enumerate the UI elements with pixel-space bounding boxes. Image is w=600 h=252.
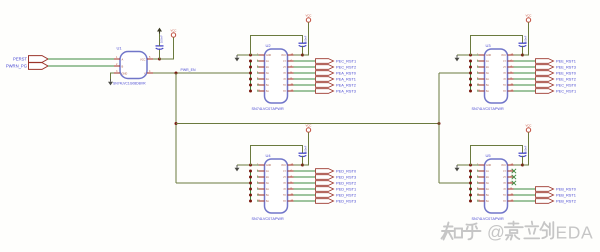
U2 right pin 4 (2Y) [288, 66, 294, 68]
svg-text:4: 4 [149, 70, 151, 73]
wire VCC circle to U1 VCC node [160, 37, 174, 59]
U4 right pin 4 (2Y) [288, 176, 294, 178]
U1 pin 5 (VCC) stub [147, 58, 153, 60]
net label PED_RST3 [336, 198, 356, 203]
svg-text:1Y: 1Y [283, 61, 286, 63]
C1 value label 100nF (vertical) [160, 35, 164, 43]
svg-text:EDA: EDA [556, 222, 594, 242]
net label PEC_RST1 [336, 58, 356, 63]
net label PEA_RST1 [336, 76, 356, 81]
net label PEE_RST0 [556, 70, 577, 75]
U1 pin 3 (GND) stub [114, 72, 120, 74]
svg-text:PEE_RST3: PEE_RST3 [556, 64, 576, 69]
junction U3 VCC node [514, 54, 523, 56]
wire U3 output row 6 to port [514, 90, 536, 92]
svg-text:U5: U5 [486, 153, 492, 158]
U3 input bus wire [470, 61, 472, 91]
svg-text:@: @ [487, 222, 505, 242]
svg-text:6Y: 6Y [503, 201, 506, 203]
port PEC_RST2 [316, 65, 334, 70]
port PEE_RST1 [536, 59, 554, 64]
net label PED_RST0 [336, 168, 357, 173]
U3 right pin 6 (3Y) [508, 72, 514, 74]
wire U3 output row 2 to port [514, 66, 536, 68]
U3 left pin 1 (1A) [477, 60, 479, 62]
port PEB_RST1 [536, 193, 554, 198]
svg-text:GND: GND [266, 55, 271, 57]
port PEA_RST1 [316, 77, 334, 82]
vertical net wire x=176 [175, 73, 177, 183]
U1 part number label [113, 82, 146, 86]
net label PEA_RST3 [336, 88, 356, 93]
svg-text:6Y: 6Y [283, 201, 286, 203]
no-connect flag U5 output row 2 [512, 175, 516, 179]
junction U3 input pin row 1 [469, 60, 472, 63]
svg-text:5Y: 5Y [503, 195, 506, 197]
svg-text:2Y: 2Y [503, 67, 506, 69]
wire U4 output row 6 to port [294, 200, 316, 202]
svg-text:PWR_EN: PWR_EN [181, 68, 196, 72]
junction U3 input pin row 4 [469, 78, 472, 81]
wire U2 output row 5 to port [294, 84, 316, 86]
feed wire to U5 inputs [439, 182, 471, 184]
junction U3 input pin row 2 [469, 66, 472, 69]
U3 right pin 8 (4Y) [508, 78, 514, 80]
U3 reference designator [486, 43, 492, 48]
svg-text:3Y: 3Y [503, 73, 506, 75]
U5 right pin 10 (5Y) [508, 194, 514, 196]
U3 right pin 10 (5Y) [508, 84, 514, 86]
svg-text:PED_RST2: PED_RST2 [336, 192, 356, 197]
port PEE_RST0 [536, 71, 554, 76]
IC U4 block (bottom middle) [235, 124, 357, 221]
junction U4 input pin row 3 [249, 182, 252, 185]
wire U3 output row 3 to port [514, 72, 536, 74]
svg-text:2Y: 2Y [283, 177, 286, 179]
net label PWR_EN [181, 68, 196, 72]
wire PWRN_PG to U1 pin B [48, 65, 114, 67]
U3 left pin 9 (4A) [477, 78, 479, 80]
U5 right pin 12 (6Y) [508, 200, 514, 202]
svg-text:1Y: 1Y [503, 61, 506, 63]
port PEB_RST0 [536, 187, 554, 192]
junction U4 input pin row 5 [249, 194, 252, 197]
wire U4 GND pin to ground [237, 164, 257, 166]
capacitor C1 [159, 49, 161, 60]
junction U1 VCC node [158, 58, 161, 61]
wire U2 GND loop to capacitor [251, 36, 303, 56]
svg-text:PWRN_PG: PWRN_PG [6, 63, 27, 68]
svg-text:U3: U3 [486, 43, 492, 48]
net label PED_RST3 [336, 174, 356, 179]
svg-text:100nF: 100nF [524, 35, 528, 43]
svg-text:4Y: 4Y [283, 79, 286, 81]
U2 right pin 2 (1Y) [288, 60, 294, 62]
svg-text:1Y: 1Y [283, 171, 286, 173]
wire VCC circle to U4 VCC node [303, 132, 309, 165]
port PED_RST0 [316, 169, 334, 174]
feed wire to U3 inputs [439, 72, 471, 74]
wire U3 output row 4 to port [514, 78, 536, 80]
port PED_RST2 [316, 181, 334, 186]
U4 reference designator [266, 153, 272, 158]
svg-text:2: 2 [116, 63, 118, 66]
wire U1 VCC pin to node [153, 58, 160, 60]
U5 part number label [472, 217, 504, 221]
U3 right pin 12 (6Y) [508, 90, 514, 92]
power port VCC circle (U2) [306, 18, 310, 22]
power port VCC circle (U4) [306, 128, 310, 132]
svg-text:PEC_RST1: PEC_RST1 [336, 58, 356, 63]
U2 left pin 5 (3A) [257, 72, 259, 74]
svg-text:PERST: PERST [13, 56, 27, 61]
junction U4 GND node [249, 164, 252, 167]
svg-text:VCC: VCC [306, 124, 312, 128]
wire U3 GND loop to capacitor [471, 36, 523, 56]
svg-text:U1: U1 [117, 45, 123, 50]
svg-text:PEA_RST1: PEA_RST1 [336, 76, 356, 81]
net label PED_RST2 [336, 180, 356, 185]
IC U2 block (top middle) [235, 14, 357, 111]
svg-text:VCC: VCC [526, 124, 532, 128]
U3 left pin 11 (5A) [477, 84, 479, 86]
net label PEE_RST3 [556, 64, 576, 69]
junction U5 input pin row 5 [469, 194, 472, 197]
svg-text:PEA_RST2: PEA_RST2 [336, 82, 356, 87]
U2 left pin 3 (2A) [257, 66, 259, 68]
port PEC_RST1 [536, 89, 554, 94]
U1 pin 4 (Y) stub [147, 72, 153, 74]
U4 left pin 1 (1A) [257, 170, 259, 172]
svg-text:4Y: 4Y [503, 79, 506, 81]
U3 right pin 4 (2Y) [508, 66, 514, 68]
wire U2 output row 6 to port [294, 90, 316, 92]
svg-text:PED_RST2: PED_RST2 [336, 180, 356, 185]
op IC U1 body (SN74LVC1G08) [120, 52, 147, 79]
capacitor C4 [299, 152, 307, 154]
svg-text:3: 3 [116, 70, 118, 73]
port PEB_RST2 [536, 199, 554, 204]
port PERST (input port, left) [29, 56, 49, 63]
net label PED_RST2 [336, 192, 356, 197]
svg-text:2Y: 2Y [503, 177, 506, 179]
port PED_RST2 [316, 193, 334, 198]
port PED_RST3 [316, 175, 334, 180]
svg-text:GND: GND [486, 55, 491, 57]
U2 right pin 10 (5Y) [288, 84, 294, 86]
svg-text:100nF: 100nF [304, 145, 308, 153]
port PEA_RST2 [316, 83, 334, 88]
wire U3 GND pin to ground [457, 54, 477, 56]
svg-text:SN74LVC07APWR: SN74LVC07APWR [252, 217, 284, 221]
svg-text:U2: U2 [266, 43, 272, 48]
U4 left pin 3 (2A) [257, 176, 259, 178]
port PEE_RST3 [536, 65, 554, 70]
power flag arrow (VCC) above C1 [159, 32, 161, 34]
wire U5 output row 6 to port [514, 200, 536, 202]
svg-text:VCC: VCC [306, 14, 312, 18]
U5 right pin 6 (3Y) [508, 182, 514, 184]
svg-text:5: 5 [149, 56, 151, 59]
junction U4 input pin row 1 [249, 170, 252, 173]
junction U2 input pin row 4 [249, 78, 252, 81]
U4 right pin 14 (VCC) [288, 164, 294, 166]
feed wire to U4 inputs [176, 182, 251, 184]
ground symbol (U2) [236, 55, 238, 58]
svg-text:100nF: 100nF [304, 35, 308, 43]
svg-text:SN74LVC07APWR: SN74LVC07APWR [472, 107, 504, 111]
svg-text:5Y: 5Y [283, 85, 286, 87]
junction U2 input pin row 2 [249, 66, 252, 69]
svg-text:3Y: 3Y [283, 73, 286, 75]
wire U5 GND pin to ground [457, 164, 477, 166]
U5 left pin 1 (1A) [477, 170, 479, 172]
C5 value label 100nF (vertical) [524, 145, 528, 153]
svg-text:PEE_RST1: PEE_RST1 [556, 58, 576, 63]
svg-text:PED_RST3: PED_RST3 [336, 174, 356, 179]
ground symbol (U3) [456, 55, 458, 58]
junction U3 input pin row 3 [469, 72, 472, 75]
svg-text:SN74LVC07APWR: SN74LVC07APWR [472, 217, 504, 221]
net label PEB_RST1 [556, 192, 576, 197]
U4 left pin 5 (3A) [257, 182, 259, 184]
C4 value label 100nF (vertical) [304, 145, 308, 153]
U4 left pin 9 (4A) [257, 188, 259, 190]
net label PEE_RST2 [556, 76, 576, 81]
power port VCC circle (U1) [171, 33, 175, 37]
svg-text:VCC: VCC [281, 165, 286, 167]
svg-text:SN74LVC1G08DBVR: SN74LVC1G08DBVR [113, 82, 146, 86]
junction U5 VCC node [514, 164, 523, 166]
svg-text:4Y: 4Y [503, 189, 506, 191]
U4 left pin 11 (5A) [257, 194, 259, 196]
U5 reference designator [486, 153, 492, 158]
svg-text:PED_RST1: PED_RST1 [336, 186, 356, 191]
wire U4 output row 5 to port [294, 194, 316, 196]
U2 right pin 12 (6Y) [288, 90, 294, 92]
capacitor C3 [519, 42, 527, 44]
IC U3 block (top right) [455, 14, 577, 111]
U2 left pin 7 (GND) [257, 54, 259, 56]
svg-text:6Y: 6Y [503, 91, 506, 93]
U2 right pin 14 (VCC) [288, 54, 294, 56]
svg-text:VCC: VCC [281, 55, 286, 57]
svg-text:6Y: 6Y [283, 91, 286, 93]
IC U3 body (SN74LVC07APWR) [485, 49, 508, 103]
junction U5 input pin row 4 [469, 188, 472, 191]
U4 input bus wire [250, 171, 252, 201]
U3 part number label [472, 107, 504, 111]
U5 input bus wire [470, 171, 472, 201]
U1 reference designator [117, 45, 123, 50]
U3 left pin 13 (6A) [477, 90, 479, 92]
U5 right pin 8 (4Y) [508, 188, 514, 190]
svg-text:1Y: 1Y [503, 171, 506, 173]
svg-text:SN74LVC07APWR: SN74LVC07APWR [252, 107, 284, 111]
svg-text:PED_RST3: PED_RST3 [336, 198, 356, 203]
wire U4 GND loop to capacitor [251, 146, 303, 166]
junction U2 VCC node [294, 54, 303, 56]
svg-text:PEB_RST2: PEB_RST2 [556, 198, 576, 203]
junction U3 input pin row 6 [469, 90, 472, 93]
svg-text:PEB_RST0: PEB_RST0 [556, 186, 577, 191]
junction U2 input pin row 1 [249, 60, 252, 63]
svg-text:3Y: 3Y [283, 183, 286, 185]
junction U5 input pin row 2 [469, 176, 472, 179]
wire VCC circle to U2 VCC node [303, 22, 309, 55]
junction U5 input pin row 3 [469, 182, 472, 185]
IC U4 body (SN74LVC07APWR) [265, 159, 288, 213]
svg-text:2Y: 2Y [283, 67, 286, 69]
U2 left pin 1 (1A) [257, 60, 259, 62]
wire U4 output row 4 to port [294, 188, 316, 190]
svg-text:PEA_RST3: PEA_RST3 [336, 88, 356, 93]
junction U5 input pin row 1 [469, 170, 472, 173]
junction U3 GND node [469, 54, 472, 57]
wire U2 output row 3 to port [294, 72, 316, 74]
svg-text:100nF: 100nF [524, 145, 528, 153]
net label PEC_RST0 [556, 82, 577, 87]
U1 pin 1 (A) stub [114, 58, 120, 60]
wire U2 output row 2 to port [294, 66, 316, 68]
wire VCC circle to U5 VCC node [523, 132, 529, 165]
svg-text:4Y: 4Y [283, 189, 286, 191]
U5 left pin 3 (2A) [477, 176, 479, 178]
wire U5 output row 5 to port [514, 194, 536, 196]
U3 right pin 2 (1Y) [508, 60, 514, 62]
power port VCC circle (U5) [526, 128, 530, 132]
U4 right pin 8 (4Y) [288, 188, 294, 190]
U3 left pin 7 (GND) [477, 54, 479, 56]
port PEE_RST2 [536, 77, 554, 82]
junction U4 VCC node [294, 164, 303, 166]
port PWRN_PG (input port, left) [29, 63, 49, 70]
capacitor C5 [519, 152, 527, 154]
U5 left pin 7 (GND) [477, 164, 479, 166]
net label PEC_RST2 [336, 64, 356, 69]
U4 right pin 12 (6Y) [288, 200, 294, 202]
junction U5 input pin row 6 [469, 200, 472, 203]
U3 left pin 5 (3A) [477, 72, 479, 74]
C2 value label 100nF (vertical) [304, 35, 308, 43]
wire U1 GND pin to ground [111, 73, 115, 79]
capacitor C2 [299, 42, 307, 44]
net label PEE_RST1 [556, 58, 576, 63]
watermark JLC CJK glyphs [505, 222, 554, 240]
net label PEB_RST0 [556, 186, 577, 191]
wire U2 GND pin to ground [237, 54, 257, 56]
junction U2 GND node [249, 54, 252, 57]
svg-text:GND: GND [486, 165, 491, 167]
svg-text:PEC_RST0: PEC_RST0 [556, 82, 577, 87]
wire U4 output row 3 to port [294, 182, 316, 184]
wire U3 output row 5 to port [514, 84, 536, 86]
port PEC_RST1 [316, 59, 334, 64]
junction U2 input pin row 3 [249, 72, 252, 75]
U2 reference designator [266, 43, 272, 48]
svg-text:VCC: VCC [501, 165, 506, 167]
net label PEB_RST2 [556, 198, 576, 203]
junction U4 input pin row 2 [249, 176, 252, 179]
port PED_RST3 [316, 199, 334, 204]
ground symbol (U4) [236, 165, 238, 168]
U4 part number label [252, 217, 284, 221]
junction U4 input pin row 4 [249, 188, 252, 191]
U5 left pin 13 (6A) [477, 200, 479, 202]
U2 right pin 8 (4Y) [288, 78, 294, 80]
U2 part number label [252, 107, 284, 111]
svg-text:PEC_RST2: PEC_RST2 [336, 64, 356, 69]
svg-text:PEE_RST2: PEE_RST2 [556, 76, 576, 81]
U2 left pin 9 (4A) [257, 78, 259, 80]
wire U4 output row 1 to port [294, 170, 316, 172]
port PED_RST1 [316, 187, 334, 192]
svg-text:5Y: 5Y [503, 85, 506, 87]
vertical net wire x=439 [438, 73, 440, 183]
U2 left pin 13 (6A) [257, 90, 259, 92]
no-connect flag U5 output row 3 [512, 181, 516, 185]
junction U2 input pin row 6 [249, 90, 252, 93]
ground symbol (U5) [456, 165, 458, 168]
port PEA_RST0 [316, 71, 334, 76]
U5 right pin 14 (VCC) [508, 164, 514, 166]
U1 pin 2 (B) stub [114, 65, 120, 67]
svg-text:1: 1 [116, 56, 118, 59]
junction at (439,123.5) [438, 122, 441, 125]
long horizontal net wire y=123.5 [176, 123, 439, 125]
U5 right pin 4 (2Y) [508, 176, 514, 178]
svg-text:PED_RST0: PED_RST0 [336, 168, 357, 173]
port PEA_RST3 [316, 89, 334, 94]
U3 right pin 14 (VCC) [508, 54, 514, 56]
net label PEC_RST1 [556, 88, 576, 93]
junction at (176,73) [175, 72, 178, 75]
svg-text:PEE_RST0: PEE_RST0 [556, 70, 577, 75]
U5 left pin 9 (4A) [477, 188, 479, 190]
wire U4 output row 2 to port [294, 176, 316, 178]
net label PEA_RST0 [336, 70, 357, 75]
junction U2 input pin row 5 [249, 84, 252, 87]
U2 left pin 11 (5A) [257, 84, 259, 86]
wire U5 GND loop to capacitor [471, 146, 523, 166]
net label PEA_RST2 [336, 82, 356, 87]
junction at (176,123.5) [175, 122, 178, 125]
U4 left pin 7 (GND) [257, 164, 259, 166]
svg-text:U4: U4 [266, 153, 272, 158]
U4 right pin 6 (3Y) [288, 182, 294, 184]
svg-text:3Y: 3Y [503, 183, 506, 185]
wire U2 output row 1 to port [294, 60, 316, 62]
IC U2 body (SN74LVC07APWR) [265, 49, 288, 103]
svg-text:PEA_RST0: PEA_RST0 [336, 70, 357, 75]
wire VCC circle to U3 VCC node [523, 22, 529, 55]
watermark zhihu @JLC EDA [442, 223, 481, 240]
svg-text:5Y: 5Y [283, 195, 286, 197]
U5 right pin 2 (1Y) [508, 170, 514, 172]
junction U4 input pin row 6 [249, 200, 252, 203]
ground symbol (U1) [110, 79, 112, 82]
svg-text:VCC: VCC [171, 29, 177, 33]
power port VCC circle (U3) [526, 18, 530, 22]
U2 input bus wire [250, 61, 252, 91]
svg-text:VCC: VCC [526, 14, 532, 18]
svg-text:VCC: VCC [501, 55, 506, 57]
svg-text:100nF: 100nF [160, 35, 164, 43]
U4 left pin 13 (6A) [257, 200, 259, 202]
net label PED_RST1 [336, 186, 356, 191]
U5 left pin 5 (3A) [477, 182, 479, 184]
wire PERST to U1 pin A [48, 58, 114, 60]
